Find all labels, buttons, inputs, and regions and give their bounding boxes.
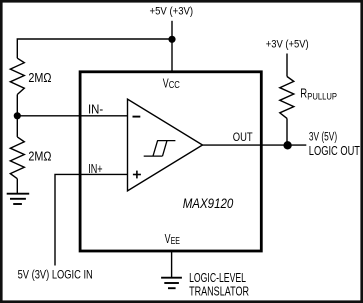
svg-text:CC: CC bbox=[169, 80, 180, 91]
svg-text:3V (5V): 3V (5V) bbox=[309, 129, 337, 143]
wire RPULLUP to OUT node bbox=[286, 118, 288, 145]
wire node A to R2 bbox=[16, 116, 18, 137]
svg-text:LOGIC-LEVEL: LOGIC-LEVEL bbox=[189, 271, 246, 285]
IC outline U1 (MAX9120 box) bbox=[80, 72, 261, 251]
wire node A to IN- input bbox=[17, 115, 127, 117]
wire OUT to logic out bbox=[203, 144, 307, 146]
net label +5V (+3V) bbox=[150, 5, 194, 17]
label MAX9120 bbox=[183, 195, 234, 211]
svg-text:5V (3V) LOGIC IN: 5V (3V) LOGIC IN bbox=[18, 268, 93, 282]
wire pullup supply to RPULLUP bbox=[286, 54, 288, 77]
svg-text:OUT: OUT bbox=[233, 132, 253, 144]
label R2 value 2MΩ bbox=[28, 149, 51, 163]
wire R1 bottom to node A bbox=[16, 95, 18, 116]
resistor R1 bbox=[10, 58, 24, 94]
wire R2 bottom to ground bbox=[16, 179, 18, 194]
svg-text:2MΩ: 2MΩ bbox=[28, 71, 51, 85]
pin label OUT bbox=[233, 132, 253, 144]
junction dot OUT node bbox=[283, 141, 291, 149]
svg-text:PULLUP: PULLUP bbox=[307, 92, 337, 102]
svg-text:IN-: IN- bbox=[88, 102, 103, 116]
net label +3V (+5V) bbox=[266, 38, 309, 50]
wire VEE pin to ground bbox=[171, 251, 173, 277]
wire +5V rail horizontal to R1 bbox=[17, 39, 172, 58]
wire IN+ input from logic in bbox=[55, 174, 128, 265]
op-amp U1 hysteresis symbol bbox=[144, 141, 176, 157]
pin label IN+ bbox=[88, 162, 102, 176]
svg-text:LOGIC OUT: LOGIC OUT bbox=[309, 143, 360, 158]
junction dot +5V rail bbox=[168, 36, 175, 43]
resistor R2 bbox=[10, 137, 24, 179]
svg-text:2MΩ: 2MΩ bbox=[28, 149, 51, 163]
ground G2 bbox=[161, 278, 182, 289]
pin label VEE bbox=[165, 231, 181, 247]
label R1 value 2MΩ bbox=[28, 71, 51, 85]
svg-text:TRANSLATOR: TRANSLATOR bbox=[189, 284, 249, 298]
op-amp U1 non-inverting input mark bbox=[133, 171, 141, 179]
svg-text:R: R bbox=[300, 87, 307, 101]
label RPULLUP bbox=[300, 87, 337, 102]
pin label IN- bbox=[88, 102, 103, 116]
svg-text:EE: EE bbox=[171, 236, 181, 247]
resistor RPULLUP bbox=[280, 77, 294, 119]
junction dot node A bbox=[14, 112, 21, 119]
net label 5V (3V) LOGIC IN bbox=[18, 268, 93, 282]
pin label VCC bbox=[163, 75, 180, 91]
svg-text:+3V (+5V): +3V (+5V) bbox=[266, 38, 309, 50]
caption LOGIC-LEVEL TRANSLATOR bbox=[189, 271, 249, 299]
net label 3V (5V) LOGIC OUT bbox=[309, 129, 360, 158]
wire +5V rail vertical to VCC pin bbox=[171, 21, 173, 72]
op-amp U1 comparator triangle bbox=[128, 99, 203, 191]
svg-text:+5V (+3V): +5V (+3V) bbox=[150, 5, 194, 17]
svg-text:MAX9120: MAX9120 bbox=[183, 195, 234, 211]
op-amp U1 inverting input mark bbox=[133, 116, 141, 118]
ground G1 bbox=[7, 194, 30, 204]
